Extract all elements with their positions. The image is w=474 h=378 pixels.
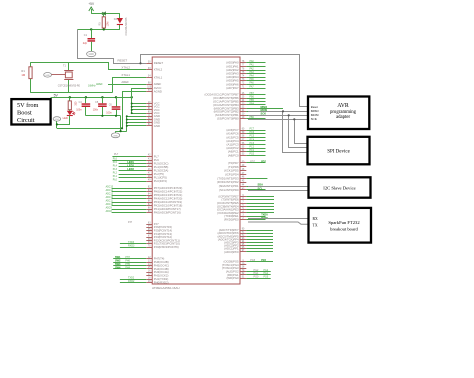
svg-text:PB4: PB4	[250, 103, 255, 105]
svg-text:ATMEGA2560-16AU: ATMEGA2560-16AU	[152, 286, 180, 290]
svg-text:GND: GND	[55, 119, 60, 121]
annotation box AVR programming adapter	[308, 97, 369, 130]
MCU port B pins	[240, 94, 246, 96]
svg-text:PL7: PL7	[114, 153, 119, 156]
wire MOSI net	[246, 111, 288, 113]
svg-text:(ICP1)PD4: (ICP1)PD4	[225, 172, 239, 176]
wire capacitor ground bus	[86, 115, 121, 117]
svg-text:PH7: PH7	[125, 257, 130, 259]
MCU port G pins	[240, 261, 246, 263]
svg-text:PB5: PB5	[250, 100, 255, 102]
svg-text:330: 330	[74, 101, 77, 106]
ground GND4	[111, 133, 119, 138]
svg-text:PG2: PG2	[254, 269, 259, 272]
ground GND1	[87, 51, 96, 56]
svg-text:(WR)PG0: (WR)PG0	[226, 276, 239, 280]
MCU port J pins	[146, 224, 152, 226]
resistor R1	[29, 67, 32, 79]
svg-text:GND: GND	[45, 75, 50, 77]
svg-text:RXD2: RXD2	[128, 280, 135, 283]
annotation box SPI Device	[308, 137, 370, 165]
svg-text:PC7: PC7	[250, 129, 255, 131]
svg-text:TX: TX	[313, 223, 318, 227]
annotation box SparkFun FT232 breakout board	[309, 208, 372, 243]
wire PG5 net	[246, 261, 273, 263]
svg-text:LED1: LED1	[127, 161, 134, 164]
wires PG2 PG1 PG0 nets	[246, 271, 270, 273]
svg-text:PH5: PH5	[125, 264, 130, 266]
capacitor C4	[85, 97, 87, 103]
svg-text:100n: 100n	[106, 112, 112, 115]
svg-text:PC2: PC2	[250, 147, 255, 149]
wire RX to FT232	[248, 218, 309, 220]
wire AGND net	[123, 92, 147, 129]
svg-text:PC0: PC0	[250, 154, 255, 156]
svg-text:(RXD1/INT2)PD2: (RXD1/INT2)PD2	[217, 180, 239, 184]
wire PD3 net	[246, 178, 267, 180]
svg-text:CD1206-S01575: CD1206-S01575	[125, 17, 128, 35]
svg-text:RESET: RESET	[154, 61, 164, 65]
capacitor C1	[91, 29, 93, 38]
wire 5V rail	[51, 97, 132, 99]
wire SCL to I2C device	[248, 190, 309, 192]
svg-text:22p: 22p	[83, 42, 88, 45]
resonator T1	[68, 62, 70, 70]
annotation box I2C Slave Device	[309, 177, 371, 197]
svg-text:RX: RX	[313, 217, 319, 221]
capacitor C5	[102, 97, 104, 103]
svg-text:PL0(ICP4): PL0(ICP4)	[154, 179, 167, 183]
wire TX to FT232	[248, 222, 309, 224]
svg-text:+5V: +5V	[88, 2, 95, 6]
wire lower rail of reset network	[77, 29, 120, 31]
op-amp U1 microcontroller ATMEGA2560 body	[152, 57, 240, 284]
MCU pin AREF	[146, 84, 152, 86]
wire SCK to AVR adapter	[248, 119, 308, 121]
svg-text:PG1: PG1	[254, 272, 259, 275]
MCU VCC pins	[146, 103, 152, 105]
wire AREF net	[108, 84, 146, 86]
wire SCK drop to SPI device	[295, 119, 308, 143]
wire MISO drop to SPI device	[283, 111, 308, 152]
wire PD7 net	[246, 162, 265, 164]
MCU pin RESET	[146, 63, 152, 65]
svg-text:XTAL1: XTAL1	[121, 73, 130, 77]
wire XTAL2 net	[109, 62, 147, 69]
svg-text:10M: 10M	[107, 22, 110, 27]
wire XTAL1 net	[113, 78, 147, 93]
svg-text:PD7: PD7	[261, 160, 266, 163]
wire ground bus left	[56, 121, 58, 128]
svg-text:PB0: PB0	[250, 117, 255, 119]
MCU GND pins	[146, 116, 152, 118]
MCU port F pins	[240, 230, 246, 232]
MCU port H pins	[146, 258, 152, 260]
svg-text:AGND: AGND	[154, 89, 162, 93]
svg-text:100n: 100n	[76, 109, 82, 112]
svg-text:PJ7: PJ7	[128, 221, 133, 224]
wire SCK net	[246, 115, 294, 117]
ground GND2 resonator	[44, 73, 52, 78]
wires TXD3 RXD3 nets	[120, 243, 146, 245]
svg-text:PG5: PG5	[250, 259, 255, 262]
svg-text:Reset: Reset	[311, 105, 318, 109]
wire oscillator bottom rail	[31, 92, 113, 94]
svg-text:SparkFun FT232: SparkFun FT232	[328, 220, 360, 225]
svg-text:TXD0: TXD0	[261, 214, 268, 217]
svg-text:AREF: AREF	[154, 82, 162, 86]
MCU pin AVCC	[146, 88, 152, 90]
wire oscillator top rail	[31, 62, 110, 64]
svg-text:SW1: SW1	[115, 256, 121, 259]
MCU port A pins	[240, 62, 246, 64]
svg-text:XTAL2: XTAL2	[121, 66, 130, 70]
svg-text:(TXD1/INT3)PD3: (TXD1/INT3)PD3	[217, 176, 239, 180]
wire GND pin bus	[126, 116, 128, 131]
wires ADC8-ADC15 nets	[112, 188, 147, 190]
wire reset pull-up to RESET pin	[78, 29, 147, 63]
svg-text:SW4: SW4	[115, 266, 121, 269]
wire MISO to AVR adapter	[248, 111, 308, 113]
svg-text:PG0: PG0	[264, 277, 269, 279]
MCU port C pins	[240, 130, 246, 132]
diode D3	[119, 14, 121, 19]
svg-text:I2C Slave Device: I2C Slave Device	[323, 185, 355, 190]
svg-text:MOSI: MOSI	[311, 113, 319, 117]
wires port A nets	[246, 62, 265, 64]
wire RXD0 net	[246, 219, 265, 221]
svg-text:PD7: PD7	[250, 160, 255, 163]
svg-text:(SS/PCINT0)PB0: (SS/PCINT0)PB0	[217, 117, 239, 121]
svg-text:GND: GND	[113, 135, 118, 137]
wire MOSI to AVR adapter	[248, 115, 308, 117]
wire +5V rail to diode	[91, 13, 120, 15]
svg-text:PC4: PC4	[250, 139, 255, 141]
svg-text:PB6: PB6	[250, 97, 255, 99]
wires port H switch nets	[113, 258, 146, 260]
svg-text:16MHz: 16MHz	[88, 85, 96, 88]
svg-text:(T0)PD7: (T0)PD7	[228, 161, 239, 165]
svg-text:(XCK1)PD5: (XCK1)PD5	[224, 169, 239, 173]
svg-text:PB7: PB7	[250, 93, 255, 95]
wire AVCC VCC bus	[131, 88, 133, 113]
capacitor C6	[116, 97, 118, 106]
svg-text:PL1: PL1	[113, 176, 118, 178]
wires port E nets	[246, 196, 274, 198]
LED LED1	[69, 110, 71, 111]
svg-text:MISO: MISO	[311, 109, 320, 113]
svg-text:GND: GND	[154, 124, 160, 128]
svg-text:SW2: SW2	[115, 259, 121, 262]
svg-text:(RXD0)PE0: (RXD0)PE0	[224, 218, 239, 222]
svg-text:PG0: PG0	[254, 276, 259, 279]
svg-text:LED3: LED3	[127, 168, 134, 171]
svg-text:AVR: AVR	[337, 103, 349, 109]
svg-text:(T1)PD6: (T1)PD6	[228, 165, 239, 169]
svg-text:TXD3: TXD3	[128, 241, 135, 244]
svg-text:(A8)PC0: (A8)PC0	[228, 153, 239, 157]
svg-text:SW3: SW3	[115, 263, 121, 266]
MCU port E pins	[240, 196, 246, 198]
svg-text:PH6: PH6	[125, 260, 130, 262]
svg-text:PG2: PG2	[264, 270, 269, 272]
MCU pin XTAL2	[146, 69, 152, 71]
wires port B nets	[246, 94, 265, 96]
svg-text:SCK: SCK	[311, 117, 318, 121]
svg-text:RESET: RESET	[118, 59, 128, 63]
wire MISO net	[246, 108, 283, 110]
svg-text:breakout board: breakout board	[330, 227, 358, 232]
svg-text:PL4: PL4	[113, 165, 118, 167]
svg-text:PL5: PL5	[113, 162, 118, 164]
svg-text:RXD3: RXD3	[128, 244, 135, 247]
svg-text:PC1: PC1	[250, 150, 255, 152]
svg-text:Circuit: Circuit	[17, 117, 35, 124]
svg-text:(SCL/INT0)PD0: (SCL/INT0)PD0	[219, 188, 239, 192]
MCU port K pins	[146, 188, 152, 190]
svg-text:PL0: PL0	[113, 180, 118, 182]
svg-text:(ADC0)PF0: (ADC0)PF0	[224, 250, 239, 254]
wire LED cathode to ground	[57, 116, 70, 125]
svg-text:PG5: PG5	[261, 259, 266, 262]
svg-text:PL2: PL2	[113, 172, 118, 174]
svg-text:Boost: Boost	[17, 109, 32, 116]
wires TXD2 RXD2 nets	[120, 279, 146, 281]
annotation box 5V from Boost Circuit	[11, 99, 50, 124]
svg-text:(SDA/INT1)PD1: (SDA/INT1)PD1	[219, 184, 239, 188]
svg-text:XTAL1: XTAL1	[154, 75, 163, 79]
svg-text:100n: 100n	[93, 109, 99, 112]
svg-text:TXD2: TXD2	[128, 277, 135, 280]
wire SDA to I2C device	[248, 186, 309, 188]
junction crosses	[102, 12, 106, 15]
svg-text:PK0(ADC8/PCINT16): PK0(ADC8/PCINT16)	[154, 211, 181, 215]
svg-text:LED2: LED2	[127, 165, 134, 168]
svg-text:PH0(RXD2): PH0(RXD2)	[154, 281, 169, 285]
svg-text:PG1: PG1	[264, 273, 269, 275]
MCU port D pins	[240, 162, 246, 164]
svg-text:SPI Device: SPI Device	[327, 150, 350, 155]
svg-text:(AD7)PA7: (AD7)PA7	[226, 86, 239, 90]
MCU pin AGND	[146, 91, 152, 93]
resistor R2	[69, 97, 71, 101]
ground GND3	[53, 117, 61, 121]
svg-text:PC6: PC6	[250, 132, 255, 134]
wire Reset to AVR adapter	[141, 55, 309, 107]
svg-text:XTAL2: XTAL2	[154, 68, 163, 72]
svg-text:PC5: PC5	[250, 136, 255, 138]
svg-text:PH4: PH4	[125, 267, 130, 269]
wires port C nets	[246, 130, 265, 132]
svg-text:AREF: AREF	[121, 80, 129, 84]
wire TXD0 net	[246, 216, 265, 218]
svg-text:5V from: 5V from	[17, 102, 38, 109]
wires port F nets	[246, 230, 273, 232]
resistor R5	[103, 14, 105, 17]
svg-text:PJ0(RXD3/PCINT9): PJ0(RXD3/PCINT9)	[154, 245, 179, 249]
svg-text:PL3: PL3	[113, 169, 118, 171]
svg-text:programming: programming	[330, 110, 357, 115]
MCU pin XTAL1	[146, 77, 152, 79]
svg-text:adapter: adapter	[336, 115, 351, 120]
svg-text:PC3: PC3	[250, 143, 255, 145]
wire SCL net	[246, 189, 265, 191]
MCU port L pins	[146, 156, 152, 158]
wire ground junction to GND4	[116, 131, 127, 133]
svg-text:CSTCE16M0V53-R0: CSTCE16M0V53-R0	[58, 85, 81, 88]
svg-text:AREF: AREF	[96, 83, 103, 86]
svg-text:GND: GND	[89, 54, 94, 56]
wire MOSI drop to SPI device	[289, 115, 308, 147]
wire oscillator left leg	[30, 62, 32, 67]
wire SDA net	[246, 186, 265, 188]
svg-text:PL6: PL6	[113, 158, 118, 160]
